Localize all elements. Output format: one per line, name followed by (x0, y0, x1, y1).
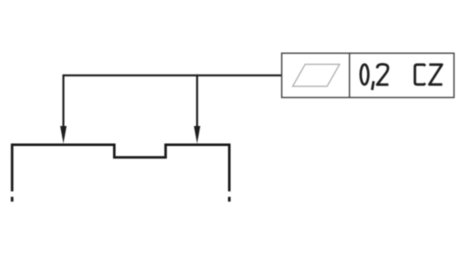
leader left vertical line (62, 74, 64, 128)
feature control frame outer box (282, 53, 454, 97)
tolerance text Z (429, 65, 442, 85)
flatness symbol parallelogram (293, 64, 340, 86)
leader right vertical line (196, 74, 198, 128)
feature control frame divider (349, 53, 351, 97)
tolerance text 2 (377, 64, 388, 84)
left break dash (11, 197, 14, 202)
leader left arrowhead (60, 126, 66, 144)
leader right arrowhead (194, 126, 200, 144)
part profile outline (12, 145, 229, 192)
leader horizontal line (63, 74, 281, 76)
right break dash (228, 197, 231, 202)
tolerance text 0 (361, 65, 369, 85)
tolerance text C (415, 65, 425, 85)
tolerance text comma (372, 81, 374, 90)
